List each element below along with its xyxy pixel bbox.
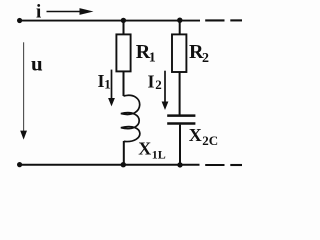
svg-text:1L: 1L [152,148,166,162]
current arrow i [47,8,94,15]
svg-text:2C: 2C [202,133,218,148]
svg-text:u: u [31,52,43,76]
svg-text:X: X [189,125,202,145]
resistor R1 [116,34,130,71]
wire bottom rail dashed continuation [205,164,242,166]
capacitor X2C bottom plate [167,122,195,125]
wire capacitor to bottom rail [179,125,181,165]
svg-text:X: X [138,138,151,158]
node top-left terminal [17,18,22,23]
wire R2 to capacitor [179,72,181,115]
wire bottom rail [20,164,200,166]
voltage arrow u [20,42,27,139]
node junction D (bottom, R2 branch) [177,162,182,167]
svg-text:i: i [36,1,41,22]
wire R1 to inductor [123,71,125,96]
inductor X1L coil [121,95,140,141]
resistor R2 [172,34,186,72]
capacitor X2C top plate [167,114,195,117]
node junction A (top, R1 branch) [121,18,126,23]
svg-text:1: 1 [104,77,111,92]
current arrow I1 [108,70,115,107]
svg-text:2: 2 [202,51,209,66]
node bottom-left terminal [17,162,22,167]
wire top rail dashed continuation [205,19,242,21]
wire inductor to bottom rail [123,141,125,165]
wire top rail [20,20,201,22]
svg-text:I: I [148,72,155,92]
wire R2 branch top [179,20,181,35]
node junction C (bottom, R1 branch) [121,162,126,167]
current arrow I2 [162,71,169,110]
svg-text:2: 2 [155,77,162,92]
wire R1 branch top [123,20,125,35]
node junction B (top, R2 branch) [177,18,182,23]
svg-text:1: 1 [149,50,156,65]
